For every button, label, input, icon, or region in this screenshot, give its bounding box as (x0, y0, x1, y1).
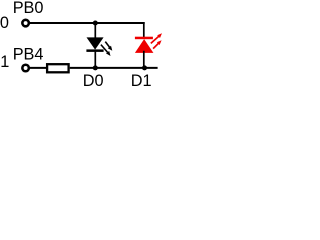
wire: D1 anode wire to bottom rail (143, 51, 145, 68)
junction node: bottom rail / D0 (93, 65, 98, 70)
LED D0 triangle (anode, pointing down) (87, 37, 104, 49)
junction node: top rail / D0 (93, 21, 98, 26)
svg-text:PB4: PB4 (13, 46, 44, 64)
wire: bottom rail from PB4 terminal to resistor (28, 67, 46, 69)
wire: D0 cathode wire to bottom rail (94, 52, 96, 68)
LED D0 cathode bar (86, 49, 103, 52)
LED D0 emission arrow 1 (105, 42, 112, 51)
wire: vertical drop from top rail corner into D1 (143, 22, 145, 38)
wire: bottom rail from resistor to right edge (70, 67, 158, 69)
svg-text:D0: D0 (83, 72, 104, 86)
LED D1 cathode bar (red) (135, 37, 153, 40)
terminal PB0 (ring) (22, 20, 29, 27)
svg-text:1: 1 (0, 53, 9, 71)
LED D1 triangle (red, pointing up) (135, 39, 154, 53)
LED D1 emission arrow 1 (red) (151, 33, 162, 43)
svg-text:0: 0 (0, 14, 9, 32)
wire: top rail from PB0 terminal to D1 corner (28, 22, 144, 24)
LED D0 emission arrow 2 (101, 45, 111, 56)
svg-text:PB0: PB0 (13, 0, 44, 17)
svg-text:D1: D1 (131, 72, 152, 86)
junction node: bottom rail / D1 (142, 65, 147, 70)
wire: D0 anode wire from top rail (94, 23, 96, 38)
resistor R1 (47, 64, 69, 72)
LED D1 emission arrow 2 (red) (153, 40, 162, 48)
terminal PB4 (ring) (22, 65, 29, 72)
